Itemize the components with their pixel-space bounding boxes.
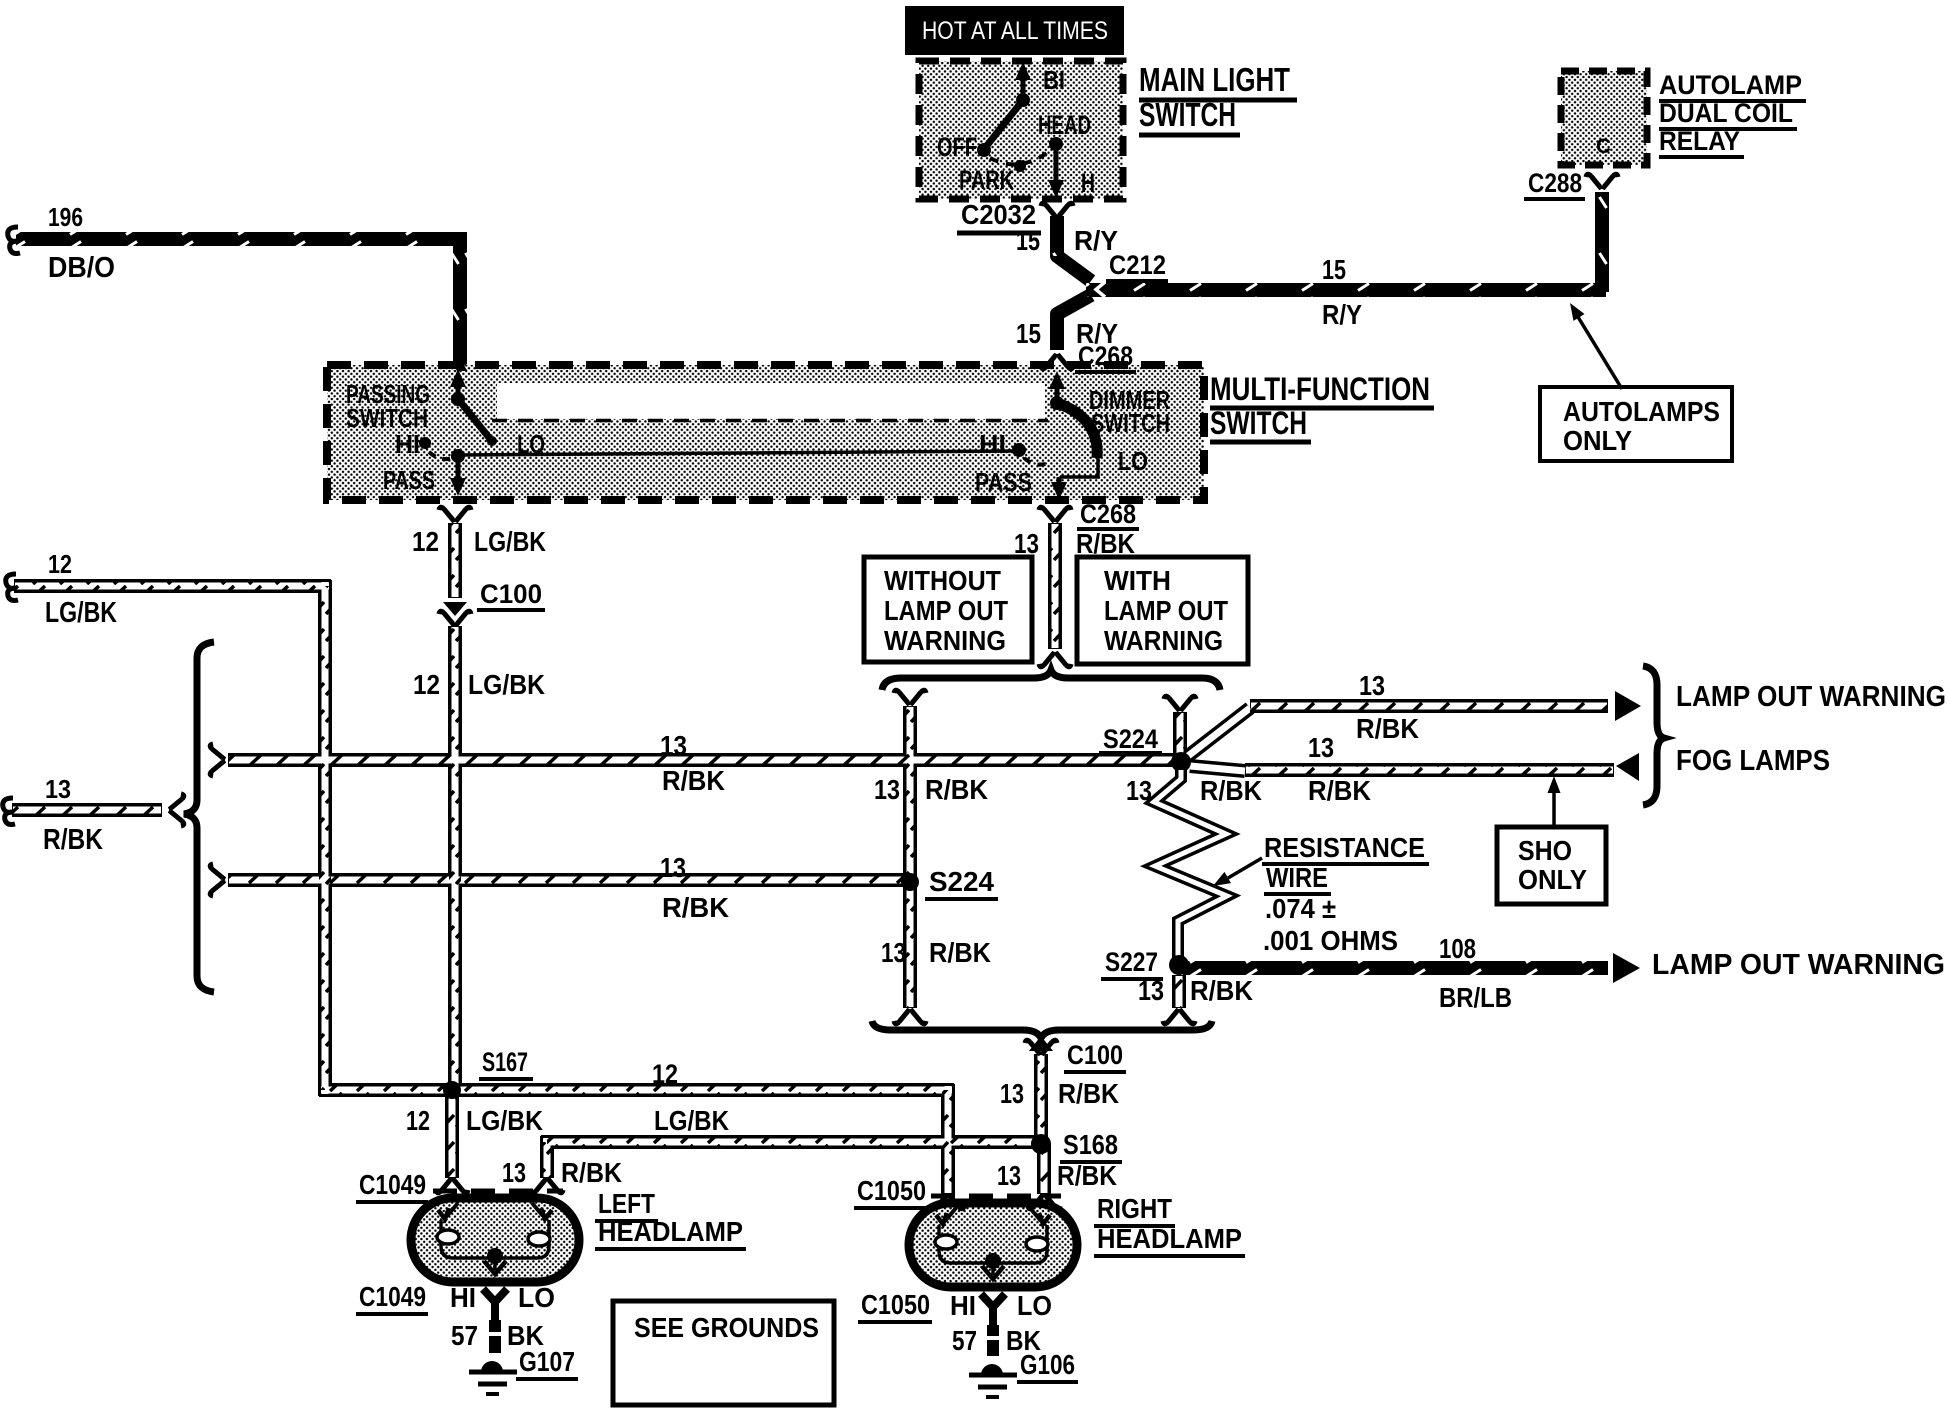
connector C212 junction [1057, 295, 1091, 350]
brace right grouping outputs [1643, 666, 1664, 805]
svg-text:RELAY: RELAY [1659, 126, 1740, 156]
svg-text:WIRE: WIRE [1266, 862, 1328, 893]
svg-text:LEFT: LEFT [598, 1188, 655, 1219]
switch: MAIN LIGHT SWITCH (dashed box) [919, 61, 1123, 199]
svg-text:S168: S168 [1063, 1129, 1118, 1160]
svg-text:13: 13 [502, 1157, 526, 1188]
wire 196 DB/O from left to passing switch [8, 227, 20, 254]
svg-text:LAMP OUT: LAMP OUT [884, 595, 1008, 626]
svg-text:HEADLAMP: HEADLAMP [598, 1216, 743, 1247]
svg-text:LO: LO [518, 1282, 555, 1313]
svg-text:WITHOUT: WITHOUT [884, 565, 1001, 596]
wire 108 BR/LB lamp out warning (thick) [1183, 961, 1608, 975]
svg-text:LAMP OUT WARNING: LAMP OUT WARNING [1652, 949, 1945, 981]
svg-text:12: 12 [413, 669, 440, 700]
main light switch internals [977, 62, 1064, 198]
svg-text:MULTI-FUNCTION: MULTI-FUNCTION [1210, 371, 1430, 407]
svg-text:DUAL COIL: DUAL COIL [1659, 98, 1793, 128]
svg-text:196: 196 [48, 202, 83, 232]
thin wire white layer [13, 524, 1613, 1193]
svg-text:ONLY: ONLY [1563, 425, 1632, 456]
svg-text:SWITCH: SWITCH [1210, 405, 1307, 441]
svg-text:PASS: PASS [975, 467, 1032, 497]
switch: MULTI-FUNCTION SWITCH (dashed box) [327, 365, 1204, 500]
splice S224 (left) [901, 873, 919, 891]
svg-text:C100: C100 [480, 579, 542, 609]
wire 13 R/BK brace to splice S224 [1164, 696, 1196, 709]
svg-text:HI: HI [979, 429, 1006, 459]
svg-text:R/BK: R/BK [1076, 528, 1135, 559]
svg-text:S224: S224 [929, 866, 994, 897]
svg-text:AUTOLAMP: AUTOLAMP [1659, 70, 1802, 100]
svg-text:R/Y: R/Y [1322, 299, 1362, 330]
svg-text:13: 13 [660, 852, 686, 883]
svg-text:13: 13 [1126, 775, 1152, 806]
wire 12 LG/BK from left entry [6, 574, 18, 601]
svg-text:13: 13 [881, 937, 906, 968]
svg-text:LAMP OUT WARNING: LAMP OUT WARNING [1676, 681, 1946, 713]
brace above C100 (bottom) [872, 1021, 1212, 1038]
svg-text:HI: HI [395, 429, 420, 459]
svg-text:SHO: SHO [1518, 835, 1572, 866]
dimmer switch internals [1012, 371, 1098, 500]
svg-text:S227: S227 [1105, 947, 1158, 977]
splice S168 [1031, 1134, 1051, 1154]
svg-text:R/BK: R/BK [1308, 775, 1371, 806]
svg-text:RIGHT: RIGHT [1097, 1193, 1172, 1224]
svg-text:LO: LO [517, 429, 545, 459]
svg-text:R/BK: R/BK [662, 765, 725, 796]
svg-text:H: H [1081, 168, 1095, 198]
svg-text:LAMP OUT: LAMP OUT [1104, 595, 1228, 626]
svg-text:LG/BK: LG/BK [466, 1105, 543, 1136]
svg-text:13: 13 [1000, 1078, 1024, 1109]
svg-text:HEAD: HEAD [1038, 110, 1091, 140]
svg-text:C288: C288 [1528, 168, 1582, 198]
svg-text:LO: LO [1118, 446, 1148, 476]
ground G107 [481, 1361, 503, 1372]
wire 13 R/BK vertical through S224 (left) [894, 690, 926, 703]
svg-text:LG/BK: LG/BK [468, 669, 545, 700]
svg-text:WITH: WITH [1104, 565, 1171, 596]
right headlamp body [909, 1203, 1077, 1287]
arrow from note to wire [1575, 312, 1622, 389]
wire 13 R/BK S168 down to right headlamp [1028, 1196, 1060, 1209]
arrow from resistance label to zigzag [1228, 858, 1262, 878]
svg-text:R/BK: R/BK [1057, 1160, 1117, 1191]
svg-text:WARNING: WARNING [1104, 625, 1223, 656]
svg-text:15: 15 [1016, 318, 1041, 349]
note box SEE GROUNDS [613, 1301, 834, 1405]
wire 12 LG/BK passing switch to C100 to S167 [439, 507, 471, 520]
svg-text:BR/LB: BR/LB [1439, 982, 1512, 1013]
relay: AUTOLAMP DUAL COIL RELAY (dashed box) [1561, 71, 1647, 165]
svg-text:108: 108 [1439, 933, 1476, 964]
thin wire hatch layer [12, 523, 1614, 1194]
wire 13 R/BK to lamp out warning arrow [1615, 691, 1641, 721]
svg-text:15: 15 [1016, 225, 1040, 256]
svg-text:57: 57 [451, 1320, 478, 1351]
svg-text:OFF: OFF [937, 132, 977, 162]
wire 15 R/Y from main light switch to C212 [1041, 203, 1073, 216]
svg-text:SEE GROUNDS: SEE GROUNDS [634, 1312, 819, 1343]
svg-text:13: 13 [1014, 528, 1039, 559]
svg-text:12: 12 [412, 526, 439, 557]
wire 12 LG/BK S167 to right headlamp [932, 1196, 964, 1209]
svg-text:ONLY: ONLY [1518, 864, 1587, 895]
svg-text:13: 13 [45, 774, 71, 804]
wire 13 R/BK below S227 [1163, 1011, 1195, 1024]
svg-text:C1049: C1049 [359, 1281, 426, 1312]
wire 15 R/Y C212 to autolamp relay [1086, 283, 1606, 297]
svg-text:C1050: C1050 [857, 1175, 926, 1206]
svg-text:HEADLAMP: HEADLAMP [1097, 1223, 1242, 1254]
connector C268 below dimmer [1039, 507, 1071, 520]
svg-text:57: 57 [952, 1325, 977, 1356]
wire 57 BK left [489, 1320, 501, 1332]
resistance wire zigzag [1154, 770, 1227, 963]
svg-text:HI: HI [450, 1282, 476, 1313]
wire 13 R/BK C100 to S168 [1029, 1036, 1053, 1051]
wire 13 R/BK lower feed (brace to S224) [210, 864, 223, 896]
wire 15 R/Y C212 down to C268 [1041, 356, 1073, 369]
svg-text:PARK: PARK [959, 165, 1014, 195]
wire 12 LG/BK S167 down to left headlamp [436, 1180, 468, 1193]
svg-text:12: 12 [406, 1105, 430, 1136]
svg-text:13: 13 [1359, 670, 1385, 701]
svg-text:C: C [1596, 135, 1611, 158]
svg-text:HOT AT ALL TIMES: HOT AT ALL TIMES [922, 17, 1108, 45]
passing switch internals [419, 369, 497, 496]
svg-text:MAIN LIGHT: MAIN LIGHT [1139, 61, 1290, 98]
svg-text:R/BK: R/BK [925, 774, 988, 805]
note box SHO ONLY [1497, 827, 1606, 904]
svg-text:12: 12 [48, 549, 72, 579]
svg-text:12: 12 [652, 1059, 678, 1089]
svg-text:SWITCH: SWITCH [1091, 408, 1170, 438]
svg-text:DB/O: DB/O [48, 252, 115, 284]
svg-text:PASS: PASS [383, 465, 435, 495]
svg-text:SWITCH: SWITCH [1139, 96, 1236, 133]
svg-text:R/BK: R/BK [929, 937, 991, 968]
svg-text:13: 13 [1138, 975, 1164, 1006]
svg-text:R/BK: R/BK [1200, 775, 1262, 806]
note box WITH LAMP OUT WARNING [1077, 557, 1248, 664]
svg-text:R/BK: R/BK [1190, 975, 1253, 1006]
svg-text:G107: G107 [519, 1346, 575, 1377]
wire 57 BK right [987, 1325, 999, 1336]
svg-text:WARNING: WARNING [884, 625, 1006, 656]
wire 13 R/BK to fog lamps [1616, 753, 1639, 781]
svg-text:13: 13 [1308, 732, 1334, 763]
svg-text:S224: S224 [1103, 724, 1158, 754]
splice S227 [1169, 955, 1189, 975]
svg-text:LO: LO [1017, 1290, 1052, 1321]
svg-text:RESISTANCE: RESISTANCE [1264, 832, 1425, 863]
HI/LO pins right [981, 1294, 1005, 1325]
arrow from SHO ONLY to fog wire [1552, 790, 1556, 825]
svg-text:R/BK: R/BK [662, 892, 729, 923]
svg-text:G106: G106 [1020, 1349, 1075, 1380]
thin wire black layer [12, 523, 1614, 1194]
svg-text:FOG LAMPS: FOG LAMPS [1676, 745, 1830, 777]
note box WITHOUT LAMP OUT WARNING [864, 557, 1032, 662]
note box AUTOLAMPS ONLY [1540, 387, 1732, 461]
svg-text:R/BK: R/BK [561, 1157, 622, 1188]
svg-text:.001 OHMS: .001 OHMS [1263, 925, 1398, 956]
wire 13 R/BK stub into left brace [3, 798, 15, 825]
wire 13 R/BK upper feed (brace to S224) [210, 744, 223, 776]
svg-text:R/BK: R/BK [1356, 713, 1419, 744]
wire inside multifunction switch (pass to dimmer) [462, 451, 1016, 455]
ground G106 [981, 1364, 1003, 1375]
brace left grouping 13 R/BK feeds [184, 642, 214, 992]
svg-text:15: 15 [1322, 254, 1346, 285]
HI/LO pins left [483, 1289, 507, 1320]
svg-text:BI: BI [1043, 65, 1065, 95]
svg-text:LG/BK: LG/BK [45, 597, 117, 629]
power banner HOT AT ALL TIMES [905, 6, 1124, 55]
svg-text:C1050: C1050 [861, 1289, 930, 1320]
svg-text:C212: C212 [1109, 250, 1166, 280]
svg-text:13: 13 [874, 774, 900, 805]
svg-text:13: 13 [997, 1160, 1021, 1191]
wire 13 R/BK between option boxes [1039, 654, 1071, 667]
svg-text:LG/BK: LG/BK [654, 1105, 729, 1136]
splice S224 [1171, 752, 1191, 772]
svg-text:S167: S167 [482, 1047, 528, 1077]
svg-text:C1049: C1049 [359, 1169, 426, 1200]
svg-text:C268: C268 [1080, 499, 1136, 529]
wire 13 R/BK S168 to left headlamp [531, 1180, 563, 1193]
brace grouping option boxes [882, 670, 1220, 690]
svg-text:R/BK: R/BK [1058, 1078, 1119, 1109]
svg-text:C268: C268 [1078, 341, 1133, 371]
left headlamp body [411, 1198, 579, 1282]
svg-text:.074 ±: .074 ± [1265, 893, 1336, 924]
svg-text:R/BK: R/BK [43, 824, 103, 856]
svg-text:LG/BK: LG/BK [474, 526, 546, 557]
svg-text:C100: C100 [1067, 1040, 1123, 1070]
svg-text:AUTOLAMPS: AUTOLAMPS [1563, 396, 1720, 427]
svg-text:13: 13 [660, 730, 687, 761]
svg-text:HI: HI [950, 1290, 976, 1321]
